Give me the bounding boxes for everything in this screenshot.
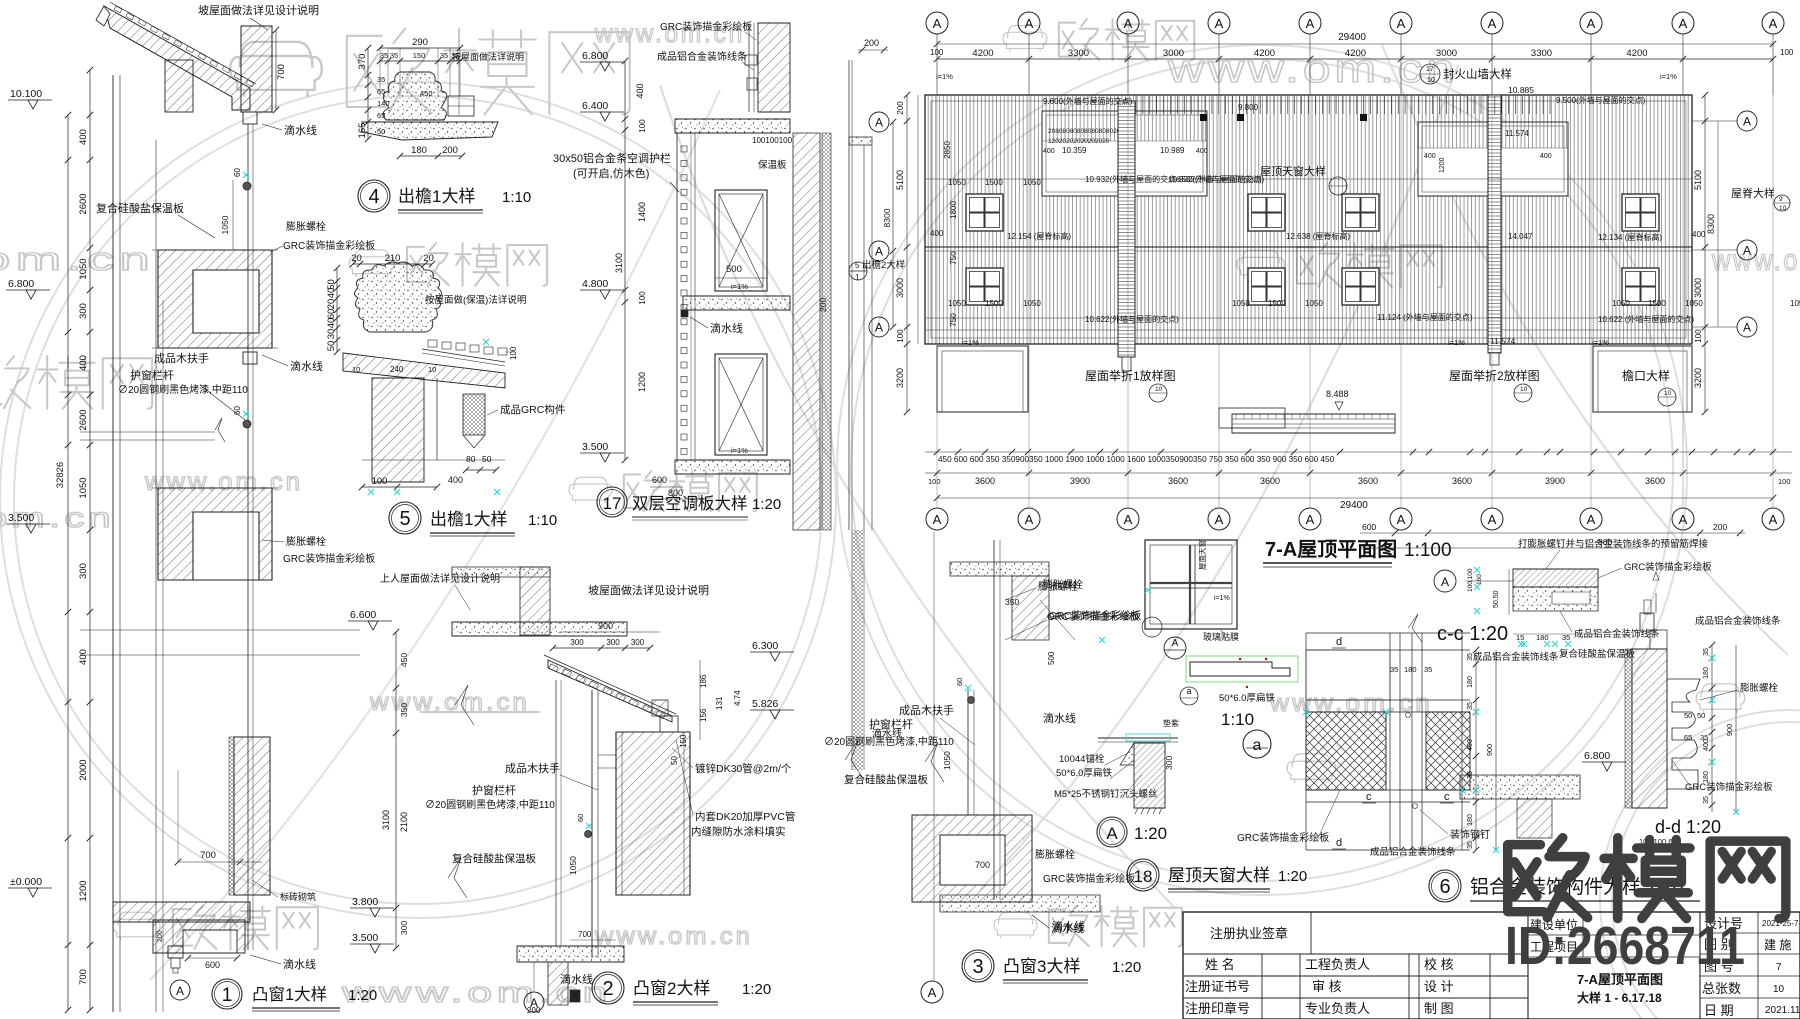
svg-text:10.622 (外墙与屋面的交点): 10.622 (外墙与屋面的交点) bbox=[1598, 314, 1694, 324]
svg-text:A: A bbox=[1215, 512, 1224, 527]
svg-text:500: 500 bbox=[726, 264, 742, 275]
svg-text:700: 700 bbox=[78, 969, 89, 985]
svg-text:65: 65 bbox=[1684, 733, 1692, 742]
svg-text:凸窗2大样: 凸窗2大样 bbox=[633, 979, 710, 998]
dormer cutout 1 bbox=[1042, 111, 1207, 196]
svg-text:1:20: 1:20 bbox=[1134, 824, 1167, 843]
wall hatch top bbox=[1012, 576, 1049, 640]
svg-text:700: 700 bbox=[200, 850, 216, 861]
svg-text:校 核: 校 核 bbox=[1424, 957, 1454, 972]
svg-text:9: 9 bbox=[1779, 196, 1783, 203]
svg-text:复合硅酸盐保温板: 复合硅酸盐保温板 bbox=[452, 852, 536, 865]
grid bubble A bottom bbox=[170, 980, 190, 1000]
floor slab bottom bbox=[113, 902, 250, 922]
bottom dims bbox=[650, 486, 683, 488]
svg-text:A: A bbox=[1397, 16, 1406, 31]
svg-text:3000: 3000 bbox=[895, 278, 905, 298]
svg-text:1050: 1050 bbox=[948, 299, 966, 308]
svg-text:2100: 2100 bbox=[399, 812, 409, 832]
top wall column hatched bbox=[758, 23, 790, 112]
svg-text:100: 100 bbox=[638, 291, 647, 305]
top overall dim 29400 bbox=[937, 43, 1773, 45]
svg-text:A: A bbox=[1124, 512, 1133, 527]
svg-text:A: A bbox=[1306, 512, 1315, 527]
svg-text:10.989: 10.989 bbox=[1160, 146, 1185, 155]
svg-text:www.o: www.o bbox=[1711, 244, 1800, 277]
roof field with vertical hatch bbox=[925, 95, 1692, 344]
skylight mullions bbox=[1189, 545, 1191, 624]
svg-text:打膨胀螺钉并与铝合金装饰线条的预留筋焊接: 打膨胀螺钉并与铝合金装饰线条的预留筋焊接 bbox=[1518, 538, 1709, 550]
right dims bbox=[699, 660, 701, 740]
svg-text:35: 35 bbox=[1467, 702, 1474, 710]
cornice profile (stippled) bbox=[383, 72, 447, 120]
break line bbox=[215, 418, 225, 442]
svg-text:10: 10 bbox=[1664, 390, 1672, 397]
svg-text:镀锌DK30管@2m/个: 镀锌DK30管@2m/个 bbox=[695, 762, 792, 775]
svg-text:6.400: 6.400 bbox=[582, 100, 608, 112]
ridge line bbox=[925, 246, 1692, 248]
svg-text:4.800: 4.800 bbox=[582, 278, 608, 290]
svg-text:专业负责人: 专业负责人 bbox=[1305, 1001, 1370, 1016]
svg-text:100: 100 bbox=[928, 477, 941, 486]
svg-text:设 计: 设 计 bbox=[1424, 979, 1454, 994]
svg-text:膨胀螺栓: 膨胀螺栓 bbox=[1043, 578, 1083, 591]
svg-text:复合硅酸盐保温板: 复合硅酸盐保温板 bbox=[844, 773, 928, 786]
svg-text:12020202020202020: 12020202020202020 bbox=[1048, 138, 1110, 145]
top-left wall bbox=[452, 567, 550, 577]
svg-text:20: 20 bbox=[351, 253, 362, 264]
mid rails bbox=[80, 629, 360, 631]
svg-text:35: 35 bbox=[1703, 648, 1710, 656]
dim 700 lower bbox=[178, 861, 262, 863]
detail 4 label bbox=[358, 180, 390, 212]
wall verticals bbox=[993, 540, 995, 900]
top segment dims bbox=[937, 58, 1773, 60]
svg-text:400: 400 bbox=[1540, 153, 1552, 160]
black squares on ridge bbox=[1200, 114, 1207, 121]
svg-text:A: A bbox=[1743, 321, 1751, 335]
svg-text:180: 180 bbox=[1404, 665, 1417, 674]
right bracket detail bbox=[448, 96, 474, 116]
svg-text:10: 10 bbox=[1155, 386, 1163, 393]
svg-text:3600: 3600 bbox=[1645, 476, 1665, 486]
svg-text:1200: 1200 bbox=[78, 880, 89, 901]
svg-text:3600: 3600 bbox=[975, 476, 995, 486]
detail 2 title bbox=[592, 972, 624, 1004]
svg-text:3600: 3600 bbox=[1260, 476, 1280, 486]
svg-text:出檐1大样: 出檐1大样 bbox=[398, 187, 475, 206]
drip box between windows bbox=[243, 352, 257, 364]
dim chain right bbox=[1711, 645, 1713, 812]
svg-text:450: 450 bbox=[420, 89, 433, 98]
svg-text:A: A bbox=[1743, 244, 1751, 258]
window box 1 (hatched surround) bbox=[158, 250, 272, 348]
dim ticks bbox=[466, 469, 496, 471]
svg-text:A: A bbox=[530, 996, 538, 1010]
bottom grid bubbles bbox=[926, 508, 948, 530]
watermark: sofa icons bbox=[1287, 684, 1745, 783]
svg-text:80: 80 bbox=[466, 454, 476, 464]
svg-text:50: 50 bbox=[482, 454, 492, 464]
window box 2 bbox=[158, 488, 272, 580]
grid line bbox=[933, 532, 935, 980]
svg-text:200: 200 bbox=[896, 101, 905, 115]
left dim chain bbox=[624, 61, 626, 460]
svg-text:a: a bbox=[1253, 737, 1262, 754]
svg-text:20: 20 bbox=[423, 253, 434, 264]
svg-text:4200: 4200 bbox=[1345, 48, 1366, 59]
svg-text:2: 2 bbox=[602, 978, 613, 1000]
svg-text:10.622(外墙与屋面的交点): 10.622(外墙与屋面的交点) bbox=[1085, 314, 1179, 324]
detail A: eave bracket bbox=[1098, 737, 1178, 739]
svg-text:600: 600 bbox=[205, 960, 220, 970]
svg-text:1800: 1800 bbox=[949, 201, 958, 219]
svg-text:400: 400 bbox=[1703, 739, 1710, 751]
svg-text:(可开启,仿木色): (可开启,仿木色) bbox=[573, 166, 649, 180]
svg-text:成品铝合金装饰线条: 成品铝合金装饰线条 bbox=[657, 50, 747, 63]
svg-text:450 600 600 350 350900350 1: 450 600 600 350 350900350 1000 1900 1000… bbox=[938, 455, 1335, 464]
svg-text:4.74: 4.74 bbox=[733, 690, 742, 706]
svg-text:1200: 1200 bbox=[637, 372, 647, 392]
svg-text:5: 5 bbox=[855, 261, 860, 270]
left dim chain bbox=[395, 632, 397, 948]
wall below continues bbox=[851, 530, 853, 770]
porch right bbox=[1593, 346, 1692, 412]
svg-text:1:20: 1:20 bbox=[1278, 868, 1307, 885]
svg-text:35: 35 bbox=[1562, 633, 1570, 642]
watermark: oumo logo bbox=[994, 906, 1182, 946]
svg-text:姓 名: 姓 名 bbox=[1205, 957, 1235, 972]
svg-text:200: 200 bbox=[864, 38, 879, 48]
svg-text:d-d 1:20: d-d 1:20 bbox=[1655, 817, 1721, 837]
svg-text:1050: 1050 bbox=[1612, 299, 1630, 308]
svg-text:35: 35 bbox=[380, 51, 388, 60]
svg-text:30: 30 bbox=[326, 329, 337, 340]
svg-text:32826: 32826 bbox=[55, 462, 66, 488]
svg-text:400: 400 bbox=[1196, 148, 1208, 155]
svg-text:制 图: 制 图 bbox=[1424, 1001, 1454, 1016]
svg-text:M5*25不锈钢钉沉头螺丝: M5*25不锈钢钉沉头螺丝 bbox=[1054, 788, 1157, 800]
svg-text:1050: 1050 bbox=[1232, 299, 1250, 308]
svg-text:日 期: 日 期 bbox=[1704, 1003, 1734, 1018]
small black block bbox=[570, 990, 580, 1002]
svg-text:5100: 5100 bbox=[1693, 170, 1703, 190]
svg-text:1:20: 1:20 bbox=[752, 496, 781, 513]
detail 6 title bbox=[1429, 870, 1461, 902]
bottom slab bbox=[1460, 775, 1580, 799]
svg-text:1:20: 1:20 bbox=[742, 981, 771, 998]
insulation strip bbox=[1625, 649, 1632, 808]
svg-text:10.100: 10.100 bbox=[10, 88, 42, 100]
svg-text:100100100: 100100100 bbox=[752, 136, 793, 145]
svg-text:A: A bbox=[875, 245, 883, 259]
dim row bbox=[380, 60, 460, 62]
svg-text:1050: 1050 bbox=[1023, 178, 1041, 187]
svg-text:1500: 1500 bbox=[985, 178, 1003, 187]
svg-text:3: 3 bbox=[972, 956, 983, 978]
svg-text:膨胀螺栓: 膨胀螺栓 bbox=[286, 220, 326, 233]
svg-text:A: A bbox=[1769, 16, 1778, 31]
svg-text:成品铝合金装饰线条: 成品铝合金装饰线条 bbox=[1370, 846, 1456, 858]
svg-text:大样 1 - 6.17.18: 大样 1 - 6.17.18 bbox=[1577, 990, 1662, 1005]
svg-text:3000: 3000 bbox=[1693, 278, 1703, 298]
svg-text:29400: 29400 bbox=[1338, 32, 1366, 43]
eave wall block bbox=[165, 60, 193, 112]
svg-text:35: 35 bbox=[1424, 665, 1432, 674]
svg-text:60: 60 bbox=[576, 814, 585, 822]
svg-text:9.800: 9.800 bbox=[1238, 103, 1259, 112]
svg-text:240: 240 bbox=[390, 365, 404, 374]
center canopy strip bbox=[1219, 408, 1285, 428]
bottom dim row 2 bbox=[925, 472, 1792, 474]
railing marker 2 bbox=[243, 420, 251, 428]
c-c section top bbox=[1434, 570, 1456, 592]
svg-text:a: a bbox=[1186, 686, 1191, 696]
svg-text:膨胀螺栓: 膨胀螺栓 bbox=[1740, 682, 1779, 694]
svg-text:凸窗3大样: 凸窗3大样 bbox=[1003, 957, 1080, 976]
svg-text:100: 100 bbox=[1778, 477, 1791, 486]
svg-text:160: 160 bbox=[1476, 574, 1483, 585]
svg-text:370: 370 bbox=[357, 54, 368, 70]
svg-text:300: 300 bbox=[78, 563, 89, 579]
big brand text 欧模网 (drawn glyphs) bbox=[1508, 838, 1786, 919]
sloped eave bbox=[548, 660, 672, 722]
dim 180/200 bbox=[400, 155, 462, 157]
svg-text:成品铝合金装饰线条: 成品铝合金装饰线条 bbox=[1473, 651, 1559, 663]
detail 18 title bbox=[1127, 859, 1159, 891]
svg-text:140: 140 bbox=[377, 99, 390, 108]
svg-text:3300: 3300 bbox=[1068, 48, 1089, 59]
break marks bbox=[925, 742, 944, 782]
svg-text:滴水线: 滴水线 bbox=[1043, 711, 1076, 725]
svg-text:3.500: 3.500 bbox=[352, 932, 378, 944]
svg-text:9.600(外墙与屋面的交点): 9.600(外墙与屋面的交点) bbox=[1043, 96, 1133, 106]
vdim bbox=[367, 48, 369, 139]
detail a: flat bar bbox=[1186, 656, 1298, 682]
svg-text:1:20: 1:20 bbox=[1112, 959, 1141, 976]
AC X-box 2 bbox=[715, 354, 767, 455]
svg-text:5: 5 bbox=[399, 508, 410, 530]
svg-text:400: 400 bbox=[1692, 230, 1706, 239]
detail 17 label bbox=[597, 487, 627, 517]
wall hatched bbox=[1632, 649, 1667, 808]
svg-text:GRC装饰描金彩绘板: GRC装饰描金彩绘板 bbox=[660, 20, 752, 33]
cornice base slab bbox=[362, 122, 498, 140]
svg-text:35: 35 bbox=[1467, 841, 1474, 849]
svg-text:标砖砌筑: 标砖砌筑 bbox=[280, 891, 316, 902]
svg-text:6.600: 6.600 bbox=[350, 609, 376, 621]
svg-text:A: A bbox=[1106, 824, 1118, 843]
frame horizontals bbox=[1306, 632, 1470, 634]
break marks bbox=[455, 685, 474, 725]
cornice blob (stippled GRC) bbox=[355, 262, 442, 332]
skylight windows bbox=[966, 194, 1003, 231]
left dimension chain inner bbox=[89, 70, 91, 1010]
ref circle A bbox=[1164, 637, 1186, 659]
svg-text:装饰钢钉: 装饰钢钉 bbox=[1450, 828, 1490, 841]
svg-text:400: 400 bbox=[1043, 148, 1055, 155]
svg-text:A: A bbox=[933, 16, 942, 31]
svg-text:50*6.0厚扁铁: 50*6.0厚扁铁 bbox=[1219, 692, 1275, 704]
svg-text:1050: 1050 bbox=[1685, 299, 1703, 308]
decorative nails bbox=[1406, 713, 1411, 718]
svg-text:60: 60 bbox=[233, 406, 242, 415]
grid bubble A bbox=[524, 992, 544, 1012]
svg-text:300: 300 bbox=[78, 303, 89, 319]
svg-text:4200: 4200 bbox=[1626, 48, 1647, 59]
svg-text:700: 700 bbox=[975, 860, 990, 870]
svg-text:2021.11: 2021.11 bbox=[1765, 1005, 1800, 1016]
svg-text:350: 350 bbox=[399, 703, 409, 717]
svg-text:1050: 1050 bbox=[1790, 299, 1800, 308]
svg-text:30x50铝合金条空调护栏: 30x50铝合金条空调护栏 bbox=[553, 151, 671, 165]
svg-text:165: 165 bbox=[357, 123, 368, 139]
svg-text:300: 300 bbox=[1164, 756, 1174, 770]
AC rail column (small squares) bbox=[676, 133, 678, 460]
svg-text:GRC装饰描金彩绘板: GRC装饰描金彩绘板 bbox=[1624, 561, 1712, 573]
svg-text:d: d bbox=[1336, 837, 1342, 849]
svg-text:1050: 1050 bbox=[220, 215, 230, 234]
dim 600 bbox=[188, 957, 237, 959]
top dim lines (600/200/800) bbox=[1360, 532, 1745, 534]
svg-text:2850: 2850 bbox=[943, 141, 952, 159]
detail 1 title bbox=[212, 979, 242, 1009]
svg-text:180: 180 bbox=[411, 145, 427, 156]
svg-text:A: A bbox=[1441, 575, 1449, 589]
svg-text:6: 6 bbox=[1439, 876, 1450, 898]
svg-text:20: 20 bbox=[326, 299, 337, 310]
svg-text:3600: 3600 bbox=[1452, 476, 1472, 486]
svg-text:复合硅酸盐保温板: 复合硅酸盐保温板 bbox=[96, 201, 184, 215]
svg-text:A: A bbox=[1306, 16, 1315, 31]
svg-text:A: A bbox=[1679, 16, 1688, 31]
svg-text:12.134 (屋脊标高): 12.134 (屋脊标高) bbox=[1598, 232, 1662, 242]
tile battens right bbox=[428, 340, 437, 347]
svg-text:400: 400 bbox=[448, 475, 463, 485]
svg-text:10: 10 bbox=[1773, 984, 1785, 995]
eave lower line bbox=[925, 329, 1692, 331]
svg-text:1:20: 1:20 bbox=[348, 987, 377, 1004]
svg-text:出檐2大样: 出檐2大样 bbox=[862, 259, 905, 271]
left vertical dims bbox=[906, 95, 908, 412]
AC X-box 1 bbox=[715, 190, 767, 291]
svg-text:c: c bbox=[1444, 791, 1450, 803]
svg-text:A: A bbox=[1124, 16, 1133, 31]
svg-text:3000: 3000 bbox=[1163, 48, 1184, 59]
svg-text:35: 35 bbox=[377, 75, 385, 84]
svg-text:2600: 2600 bbox=[78, 409, 89, 430]
small blocks at base bbox=[168, 946, 183, 958]
svg-text:35: 35 bbox=[1703, 796, 1710, 804]
svg-text:60: 60 bbox=[326, 309, 337, 320]
floor slab bbox=[517, 946, 624, 962]
svg-text:1: 1 bbox=[855, 273, 860, 282]
dim 20/210/20 bbox=[353, 263, 432, 265]
svg-text:±0.000: ±0.000 bbox=[10, 876, 42, 888]
svg-text:A: A bbox=[1587, 16, 1596, 31]
railing bbox=[967, 690, 969, 815]
svg-text:按屋面做法详说明: 按屋面做法详说明 bbox=[452, 51, 524, 62]
svg-text:11.574: 11.574 bbox=[1505, 129, 1529, 138]
svg-text:c: c bbox=[1366, 791, 1372, 803]
dim 500 bbox=[715, 277, 767, 279]
svg-text:3300: 3300 bbox=[1531, 48, 1552, 59]
svg-text:5.826: 5.826 bbox=[752, 698, 778, 710]
right dim chain bbox=[1475, 650, 1477, 850]
svg-text:内套DK20加厚PVC管: 内套DK20加厚PVC管 bbox=[695, 810, 795, 823]
svg-text:总张数: 总张数 bbox=[1702, 981, 1741, 996]
svg-text:100: 100 bbox=[372, 476, 388, 487]
svg-text:300: 300 bbox=[606, 638, 620, 647]
svg-text:17: 17 bbox=[603, 494, 622, 513]
svg-text:3000: 3000 bbox=[1436, 48, 1457, 59]
svg-text:100: 100 bbox=[896, 329, 905, 343]
signature table bbox=[1183, 912, 1800, 1019]
svg-text:i=1%: i=1% bbox=[1448, 338, 1465, 347]
svg-text:A: A bbox=[1679, 512, 1688, 527]
svg-text:A: A bbox=[176, 984, 184, 998]
svg-text:35: 35 bbox=[390, 51, 398, 60]
svg-text:ID:2668711: ID:2668711 bbox=[1505, 916, 1745, 976]
svg-text:60: 60 bbox=[955, 678, 964, 686]
svg-text:A: A bbox=[933, 512, 942, 527]
left dimension chain outer bbox=[67, 115, 69, 1010]
svg-text:滴水线: 滴水线 bbox=[284, 123, 317, 137]
svg-text:400: 400 bbox=[78, 649, 89, 665]
dim 300s bbox=[553, 647, 650, 649]
svg-text:180: 180 bbox=[1467, 814, 1474, 826]
svg-text:1:100: 1:100 bbox=[1404, 540, 1452, 561]
svg-text:65: 65 bbox=[377, 87, 385, 96]
svg-text:1: 1 bbox=[222, 985, 233, 1006]
svg-text:i=1%: i=1% bbox=[1660, 72, 1677, 81]
svg-text:i=1%: i=1% bbox=[1214, 595, 1230, 602]
dims bottom bbox=[570, 939, 616, 941]
svg-text:1050: 1050 bbox=[78, 477, 89, 498]
svg-text:滴水线: 滴水线 bbox=[290, 359, 323, 373]
svg-text:成品木扶手: 成品木扶手 bbox=[899, 703, 954, 717]
svg-text:600: 600 bbox=[652, 475, 667, 485]
svg-text:护窗栏杆: 护窗栏杆 bbox=[130, 368, 174, 382]
moulding profile right bbox=[1667, 679, 1700, 789]
svg-text:成品GRC构件: 成品GRC构件 bbox=[500, 403, 565, 416]
svg-text:1200: 1200 bbox=[1439, 157, 1446, 173]
lower bay window wall (hatched) bbox=[234, 737, 270, 895]
svg-text:1050: 1050 bbox=[942, 751, 952, 770]
slab 4.800 bbox=[683, 296, 790, 310]
svg-text:滴水线: 滴水线 bbox=[560, 972, 593, 986]
svg-text:10044锚栓: 10044锚栓 bbox=[1059, 753, 1105, 765]
svg-text:8300: 8300 bbox=[1706, 214, 1716, 234]
svg-text:A: A bbox=[1587, 512, 1596, 527]
svg-text:900: 900 bbox=[598, 621, 613, 631]
svg-text:注册印章号: 注册印章号 bbox=[1185, 1001, 1250, 1016]
svg-text:10: 10 bbox=[1520, 386, 1528, 393]
svg-text:6.300: 6.300 bbox=[752, 640, 778, 652]
top assembly bbox=[1650, 630, 1667, 649]
diamond panels bbox=[1306, 712, 1386, 790]
eave end block bbox=[660, 716, 678, 732]
railing marker bbox=[585, 831, 592, 838]
svg-text:注册执业签章: 注册执业签章 bbox=[1210, 926, 1288, 941]
svg-text:900: 900 bbox=[1725, 724, 1734, 737]
dim 200 top bbox=[858, 49, 888, 51]
sloped roof top bbox=[104, 6, 250, 110]
svg-text:20808080808080808020: 20808080808080808020 bbox=[1048, 128, 1121, 135]
svg-text:i=1%: i=1% bbox=[936, 72, 953, 81]
svg-text:3.800: 3.800 bbox=[352, 896, 378, 908]
svg-text:3600: 3600 bbox=[1358, 476, 1378, 486]
